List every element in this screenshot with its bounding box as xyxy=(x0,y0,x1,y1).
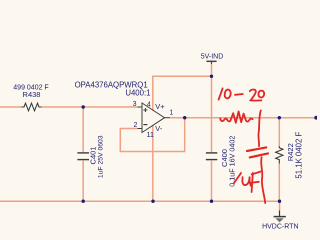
node: off-page dot right edge xyxy=(314,116,318,120)
wire: feedback loop pin2 to output xyxy=(120,118,184,152)
wire: C401 bottom branch xyxy=(82,160,84,201)
node: junction input/C401 xyxy=(82,105,85,108)
wire: R422 top lead xyxy=(278,118,280,147)
node: junction C400/bus xyxy=(210,200,213,203)
wire: 5V-IND vertical xyxy=(211,64,213,152)
node: junction 5V/pin4 xyxy=(210,75,213,78)
wire: ground bus xyxy=(0,200,280,202)
wire: input net to op-amp xyxy=(42,106,138,108)
svg-text:3: 3 xyxy=(133,101,137,108)
wire: ground stub xyxy=(279,201,281,210)
svg-text:1uF 25V 0603: 1uF 25V 0603 xyxy=(98,135,105,178)
svg-text:5V-IND: 5V-IND xyxy=(201,53,224,60)
node: junction bus/ground xyxy=(278,200,281,203)
svg-text:0.1uF 16V 0402: 0.1uF 16V 0402 xyxy=(227,136,236,187)
pin 2 lead xyxy=(137,128,142,130)
svg-text:V-: V- xyxy=(155,124,163,133)
node: junction output/R422 xyxy=(278,116,281,119)
svg-text:51.1K 0402 F: 51.1K 0402 F xyxy=(294,132,303,179)
wire: output net xyxy=(170,117,317,119)
node: junction pin11/bus xyxy=(151,200,154,203)
node: junction C401/bus xyxy=(82,200,85,203)
annotation: red vertical stroke upper xyxy=(258,111,260,147)
svg-text:V+: V+ xyxy=(155,102,164,111)
annotation: red capacitor plates xyxy=(247,147,268,157)
power symbol 5V-IND xyxy=(206,61,216,64)
pin 3 lead xyxy=(137,106,142,108)
svg-text:U400:1: U400:1 xyxy=(125,88,150,97)
pin 11 wire to bus xyxy=(152,125,154,201)
op-amp minus sign xyxy=(143,124,147,126)
annotation: handwritten uF xyxy=(234,172,261,192)
annotation: handwritten 10-20 xyxy=(219,88,265,100)
pin 4 wire to 5V xyxy=(153,76,212,110)
svg-text:11: 11 xyxy=(147,132,154,139)
svg-text:1: 1 xyxy=(169,110,173,117)
resistor R422 xyxy=(276,146,283,164)
annotation: red vertical stroke lower xyxy=(261,157,265,203)
resistor R438 xyxy=(22,103,42,111)
svg-text:HVDC-RTN: HVDC-RTN xyxy=(262,223,298,230)
wire: R422 bottom lead xyxy=(278,164,280,202)
wire: C400 bottom branch xyxy=(211,160,213,201)
wire: input net left segment xyxy=(0,106,22,108)
annotation: handwritten resistor squiggle xyxy=(220,111,252,122)
op-amp plus sign xyxy=(143,108,147,112)
ground HVDC-RTN xyxy=(274,211,286,223)
pin 1 output lead xyxy=(165,117,171,119)
capacitor C401 xyxy=(77,153,89,160)
svg-text:R438: R438 xyxy=(23,90,41,99)
wire: C401 top branch xyxy=(82,107,84,152)
node: junction output/feedback xyxy=(183,116,186,119)
capacitor C400 xyxy=(206,153,217,160)
op-amp U400:1 triangle xyxy=(142,103,165,133)
svg-text:C401: C401 xyxy=(89,147,98,165)
